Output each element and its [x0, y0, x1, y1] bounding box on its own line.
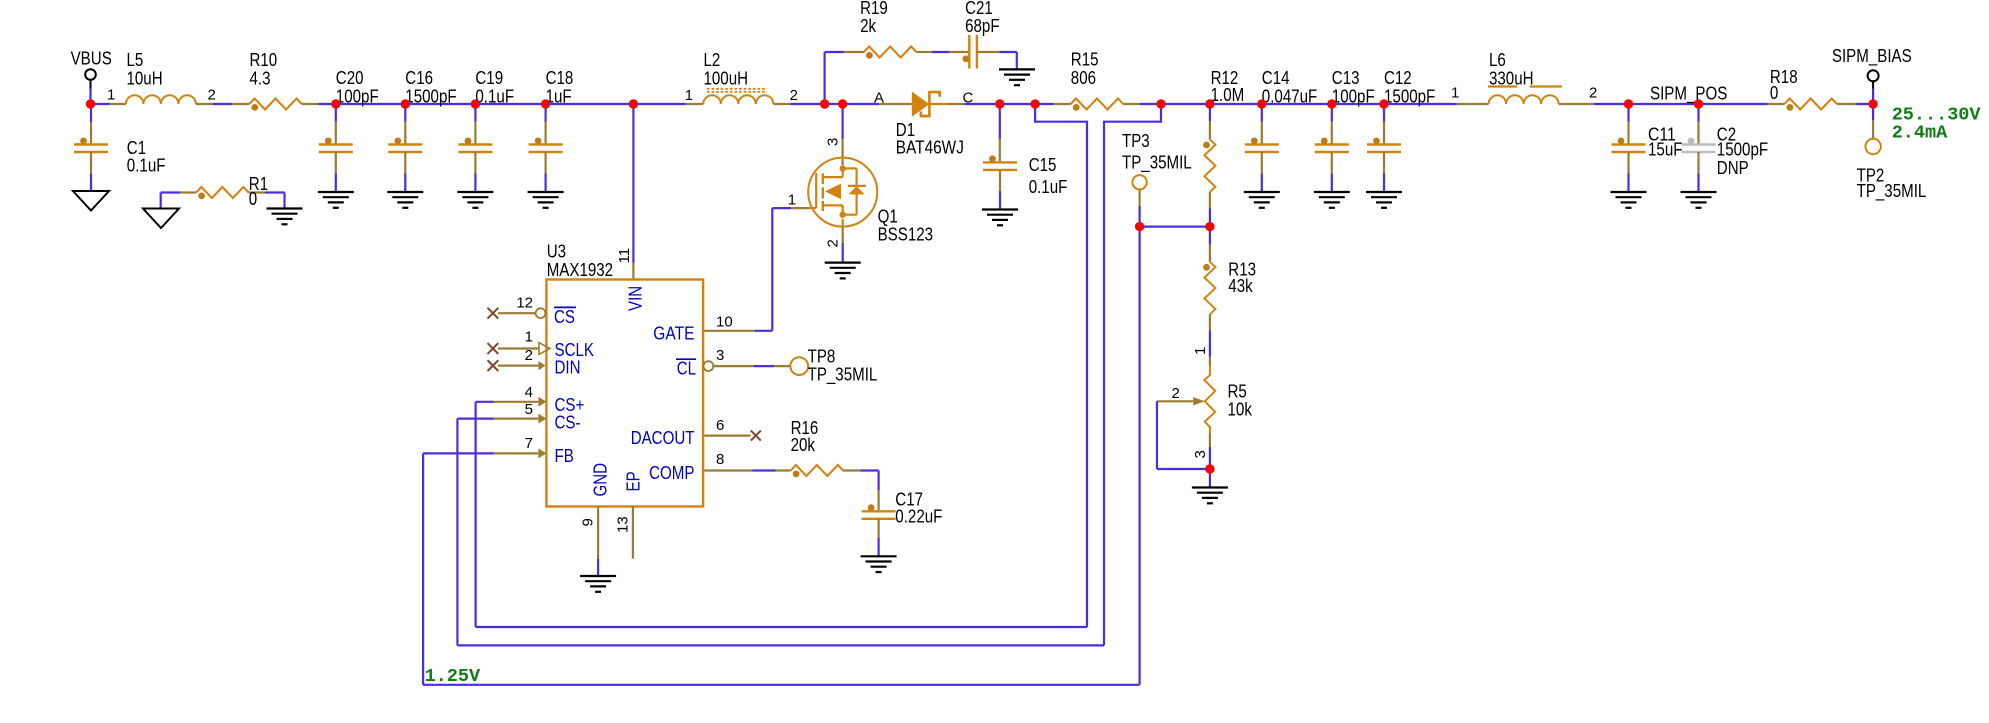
svg-text:R5: R5 — [1228, 381, 1247, 401]
svg-text:VIN: VIN — [625, 286, 645, 311]
svg-text:2k: 2k — [860, 16, 877, 36]
svg-text:TP_35MIL: TP_35MIL — [808, 365, 878, 386]
svg-text:0: 0 — [249, 189, 257, 209]
svg-text:9: 9 — [579, 518, 596, 526]
svg-text:4: 4 — [525, 384, 533, 401]
svg-text:806: 806 — [1071, 68, 1096, 88]
svg-text:330uH: 330uH — [1489, 69, 1534, 89]
svg-text:C18: C18 — [546, 68, 574, 88]
svg-text:68pF: 68pF — [965, 16, 1000, 36]
svg-text:0: 0 — [1770, 83, 1778, 103]
svg-text:1: 1 — [1451, 85, 1459, 102]
svg-text:C12: C12 — [1384, 68, 1412, 88]
svg-text:TP3: TP3 — [1122, 131, 1150, 151]
svg-text:L6: L6 — [1489, 50, 1506, 70]
svg-text:Q1: Q1 — [878, 207, 898, 227]
svg-text:100uH: 100uH — [704, 69, 749, 89]
svg-text:100pF: 100pF — [336, 87, 379, 107]
svg-text:13: 13 — [615, 516, 632, 533]
svg-text:20k: 20k — [791, 435, 816, 455]
svg-text:100pF: 100pF — [1332, 87, 1375, 107]
svg-text:C14: C14 — [1262, 68, 1290, 88]
svg-text:11: 11 — [616, 248, 633, 264]
svg-text:2: 2 — [525, 347, 533, 364]
svg-text:C15: C15 — [1029, 155, 1057, 175]
svg-text:1.25V: 1.25V — [425, 666, 481, 687]
svg-text:43k: 43k — [1228, 276, 1253, 296]
svg-text:2: 2 — [790, 87, 798, 104]
svg-text:C: C — [963, 90, 974, 107]
svg-text:7: 7 — [525, 435, 533, 452]
svg-text:2: 2 — [825, 239, 842, 247]
svg-text:BSS123: BSS123 — [878, 225, 934, 245]
svg-text:1500pF: 1500pF — [1384, 87, 1435, 107]
svg-text:C16: C16 — [405, 68, 433, 88]
svg-text:15uF: 15uF — [1648, 140, 1683, 160]
svg-text:1500pF: 1500pF — [1717, 140, 1768, 160]
svg-text:L2: L2 — [704, 50, 721, 70]
svg-text:10uH: 10uH — [127, 69, 163, 89]
svg-text:0.1uF: 0.1uF — [127, 156, 166, 176]
svg-text:TP_35MIL: TP_35MIL — [1122, 152, 1192, 173]
svg-text:L5: L5 — [127, 50, 144, 70]
svg-text:A: A — [874, 90, 884, 107]
svg-text:3: 3 — [825, 138, 842, 146]
svg-text:DNP: DNP — [1717, 158, 1749, 178]
svg-text:TP_35MIL: TP_35MIL — [1857, 181, 1927, 202]
svg-text:EP: EP — [624, 471, 644, 491]
svg-text:0.1uF: 0.1uF — [1029, 177, 1068, 197]
svg-text:2: 2 — [1589, 85, 1597, 102]
svg-text:1: 1 — [107, 87, 115, 104]
svg-text:COMP: COMP — [649, 463, 694, 483]
svg-text:12: 12 — [516, 295, 533, 312]
svg-text:CL: CL — [677, 359, 696, 379]
svg-text:10: 10 — [716, 314, 733, 331]
svg-text:1: 1 — [685, 87, 693, 104]
svg-text:CS-: CS- — [555, 413, 581, 433]
svg-text:C13: C13 — [1332, 68, 1360, 88]
svg-text:2: 2 — [208, 87, 216, 104]
svg-text:0.047uF: 0.047uF — [1262, 87, 1318, 107]
svg-text:1500pF: 1500pF — [405, 87, 456, 107]
svg-text:0.22uF: 0.22uF — [895, 507, 942, 527]
svg-text:6: 6 — [716, 417, 724, 434]
svg-text:TP8: TP8 — [808, 347, 836, 367]
svg-text:3: 3 — [1192, 450, 1209, 458]
svg-text:1: 1 — [525, 329, 533, 346]
svg-text:1.0M: 1.0M — [1211, 85, 1245, 105]
svg-text:R15: R15 — [1071, 50, 1099, 70]
svg-text:5: 5 — [525, 401, 533, 418]
svg-text:1: 1 — [1192, 347, 1209, 355]
svg-text:2: 2 — [1172, 385, 1180, 402]
svg-text:2.4mA: 2.4mA — [1892, 123, 1948, 144]
svg-text:GND: GND — [591, 463, 611, 497]
svg-text:C19: C19 — [475, 68, 503, 88]
svg-text:R10: R10 — [250, 50, 278, 70]
svg-text:10k: 10k — [1228, 400, 1253, 420]
svg-text:1: 1 — [788, 192, 796, 209]
svg-text:GATE: GATE — [653, 323, 694, 343]
svg-text:C20: C20 — [336, 68, 364, 88]
svg-text:0.1uF: 0.1uF — [475, 87, 514, 107]
svg-text:4.3: 4.3 — [250, 69, 271, 89]
svg-text:FB: FB — [555, 446, 574, 466]
svg-text:SIPM_BIAS: SIPM_BIAS — [1832, 46, 1912, 67]
svg-text:3: 3 — [716, 347, 724, 364]
svg-text:DIN: DIN — [555, 358, 581, 378]
svg-text:CS: CS — [554, 307, 575, 327]
svg-text:MAX1932: MAX1932 — [547, 260, 613, 280]
svg-text:U3: U3 — [547, 242, 566, 262]
svg-text:BAT46WJ: BAT46WJ — [896, 138, 964, 158]
svg-text:8: 8 — [716, 451, 724, 468]
svg-text:DACOUT: DACOUT — [631, 428, 695, 448]
svg-text:SIPM_POS: SIPM_POS — [1650, 84, 1727, 105]
svg-text:VBUS: VBUS — [71, 48, 112, 68]
